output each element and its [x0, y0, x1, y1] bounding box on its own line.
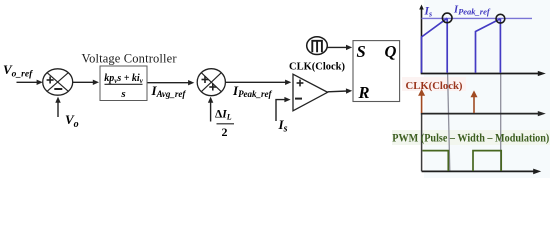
- svg-text:R: R: [358, 83, 370, 102]
- svg-text:Q: Q: [385, 42, 397, 61]
- svg-text:PWM (Pulse – Width – Modulatio: PWM (Pulse – Width – Modulation): [392, 131, 549, 145]
- svg-text:kpvs + kiv: kpvs + kiv: [104, 73, 143, 85]
- svg-text:s: s: [120, 88, 125, 100]
- svg-text:Voltage Controller: Voltage Controller: [82, 52, 178, 66]
- svg-text:CLK(Clock): CLK(Clock): [289, 61, 345, 73]
- svg-text:CLK(Clock): CLK(Clock): [406, 80, 463, 92]
- svg-text:IPeak_ref: IPeak_ref: [453, 4, 491, 16]
- svg-text:2: 2: [222, 125, 228, 139]
- svg-text:S: S: [357, 42, 366, 61]
